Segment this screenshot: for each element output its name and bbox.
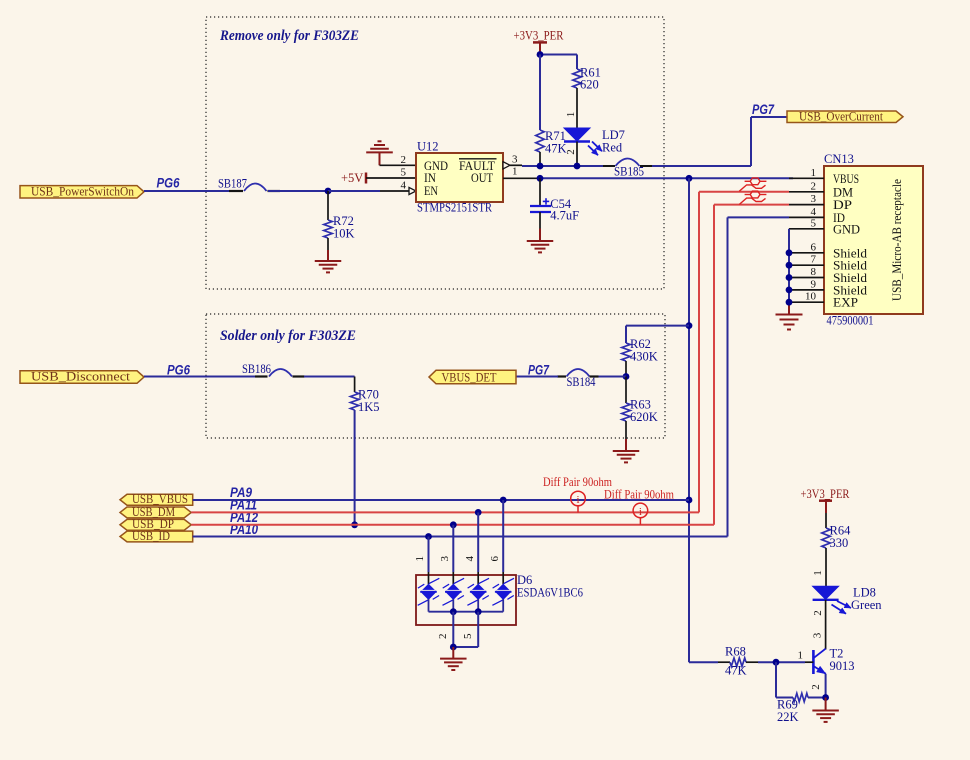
LED LD8	[813, 586, 883, 614]
svg-text:2: 2	[401, 154, 407, 166]
resistor R72	[324, 214, 355, 241]
TVS diode pair D6-a	[418, 572, 440, 605]
svg-text:4: 4	[811, 206, 817, 218]
port flag USB_DM	[120, 505, 191, 519]
svg-text:PG6: PG6	[157, 176, 180, 191]
wire node to R71/R61 split	[540, 54, 577, 56]
wire OUT line U12 to CN13	[503, 177, 793, 179]
connector CN13 USB Micro-AB body	[824, 152, 923, 328]
wire R62 to node	[625, 361, 627, 377]
svg-text:9: 9	[811, 278, 817, 290]
wire LD8 to T2 collector	[825, 600, 827, 650]
svg-text:330: 330	[830, 536, 849, 550]
wire flag to SB186	[144, 376, 256, 378]
svg-text:USB_OverCurrent: USB_OverCurrent	[799, 109, 884, 123]
junction dot PA11-D6	[475, 509, 482, 516]
resistor R70	[350, 388, 379, 415]
svg-text:SB184: SB184	[567, 375, 597, 389]
U12 pin 5 stub	[366, 167, 416, 179]
svg-text:STMPS2151STR: STMPS2151STR	[417, 201, 493, 215]
dotted region box: Remove only for F303ZE	[206, 17, 664, 289]
svg-text:620K: 620K	[630, 410, 658, 424]
svg-text:Remove only for F303ZE: Remove only for F303ZE	[219, 28, 359, 44]
wire LD7 to FAULT line	[576, 142, 578, 167]
ground below R72	[315, 261, 342, 272]
wire emitter node to ground	[825, 698, 827, 711]
net label PG7 (VBUS_DET)	[528, 362, 550, 377]
U12 pin 4 stub with input arrow	[380, 180, 416, 195]
wire D6 pin5 down	[453, 612, 478, 647]
power +3V3_PER (top)	[514, 29, 565, 52]
junction dot emitter node	[822, 694, 829, 701]
svg-text:2: 2	[565, 149, 577, 155]
junction dot D6 gnd	[450, 644, 457, 651]
svg-text:1: 1	[798, 650, 804, 662]
junction dot base node	[773, 659, 780, 666]
junction dot R72 tap	[325, 188, 332, 195]
svg-text:i: i	[576, 494, 579, 506]
junction dot C54 tap	[537, 175, 544, 182]
junction dot PA10-D6	[425, 533, 432, 540]
svg-text:10: 10	[805, 291, 817, 303]
text Diff Pair 90ohm (2)	[604, 486, 674, 501]
wire R63 to ground	[625, 421, 627, 451]
svg-text:SB185: SB185	[614, 165, 644, 179]
wire DM red	[699, 192, 789, 513]
junction dot D6 pin5 bus	[475, 608, 482, 615]
wire T2 emitter down	[825, 674, 827, 698]
svg-text:R68: R68	[725, 645, 746, 659]
wire PA9 bus	[193, 499, 689, 501]
TVS diode pair D6-d	[492, 572, 514, 605]
capacitor C54 polarized	[530, 178, 579, 222]
D6 pin labels top	[414, 555, 501, 561]
resistor R64	[822, 524, 851, 551]
wire PA10 bus	[193, 536, 728, 538]
svg-text:5: 5	[811, 217, 817, 229]
port flag USB_PowerSwitchOn	[20, 184, 144, 198]
ground below C54	[527, 241, 554, 252]
wire R69 to emitter node	[808, 697, 826, 699]
svg-text:47K: 47K	[545, 142, 567, 156]
svg-text:+3V3_PER: +3V3_PER	[801, 487, 851, 501]
resistor R68	[725, 645, 747, 678]
diff pair directive circle 2	[633, 503, 648, 525]
port flag USB_Disconnect	[20, 370, 144, 384]
wire 3V3 node down to R71	[539, 55, 541, 131]
svg-text:4.7uF: 4.7uF	[550, 209, 579, 223]
wire D6 to ground	[452, 647, 454, 659]
net label PA9	[230, 485, 252, 500]
solder bridge SB187	[218, 176, 280, 191]
net label PA11	[230, 498, 257, 513]
wire down to R61	[576, 55, 578, 70]
wire base from R68	[776, 661, 813, 663]
pin 2 label of LD7	[565, 149, 577, 155]
wire R71 to FAULT line	[539, 152, 541, 166]
net label PG6 (lower)	[167, 362, 190, 377]
svg-text:i: i	[639, 506, 642, 518]
wire PA11 bus	[191, 511, 699, 513]
svg-text:3: 3	[811, 193, 817, 205]
diff pair twist symbol on DM	[739, 178, 766, 191]
wire R68 to base node	[746, 661, 776, 663]
wire R64 to LD8	[825, 548, 827, 586]
svg-text:2: 2	[810, 684, 822, 690]
wire SB185 to PG7 corner	[652, 117, 787, 166]
LED LD7	[564, 128, 625, 155]
svg-text:10K: 10K	[333, 227, 355, 241]
svg-text:475900001: 475900001	[827, 314, 874, 328]
svg-text:VBUS_DET: VBUS_DET	[442, 370, 497, 384]
svg-text:4: 4	[401, 180, 407, 192]
resistor R62	[622, 337, 658, 364]
svg-text:5: 5	[401, 167, 407, 179]
TVS array D6 box	[416, 573, 583, 625]
svg-text:SB186: SB186	[242, 362, 271, 376]
svg-text:430K: 430K	[630, 350, 658, 364]
svg-text:USB_ID: USB_ID	[132, 529, 170, 543]
port flag VBUS_DET	[429, 370, 516, 384]
svg-text:USB_PowerSwitchOn: USB_PowerSwitchOn	[31, 184, 134, 198]
svg-text:3: 3	[512, 154, 518, 166]
junction dot VBUS_DET node	[623, 373, 630, 380]
diff pair twist symbol on DP	[739, 191, 766, 204]
pin 3 label of T2	[812, 632, 824, 638]
svg-text:2: 2	[437, 634, 449, 640]
wire flag to SB187	[144, 190, 242, 192]
transistor T2 9013	[798, 647, 855, 675]
TVS diode pair D6-b	[443, 572, 465, 605]
port flag USB_OverCurrent	[787, 109, 903, 123]
svg-text:Diff Pair 90ohm: Diff Pair 90ohm	[543, 474, 612, 489]
svg-text:1: 1	[565, 112, 577, 118]
junction dot PA12-D6	[450, 521, 457, 528]
svg-text:Solder only for F303ZE: Solder only for F303ZE	[220, 328, 356, 344]
svg-text:1: 1	[512, 166, 518, 178]
svg-text:Diff Pair 90ohm: Diff Pair 90ohm	[604, 486, 674, 501]
pin 1 label of LD7	[565, 112, 577, 118]
svg-text:GND: GND	[833, 221, 860, 236]
wire R72 node to EN pin	[328, 190, 380, 192]
wire D6 pin6 from PA9	[502, 500, 504, 572]
net label PA10	[230, 522, 258, 537]
svg-text:620: 620	[580, 78, 599, 92]
svg-text:1: 1	[811, 167, 817, 179]
wire R72 to ground	[327, 238, 329, 261]
svg-text:4: 4	[464, 555, 476, 561]
ground below CN13	[776, 315, 803, 330]
pin 2 label of T2	[810, 684, 822, 690]
junction dot VBUS vertical	[686, 175, 693, 182]
svg-text:3: 3	[439, 555, 451, 561]
svg-text:PG7: PG7	[528, 362, 550, 377]
svg-text:U12: U12	[417, 140, 439, 154]
svg-text:3: 3	[812, 632, 824, 638]
pin 2 label of LD8	[812, 610, 824, 616]
wire D6 pin4 from PA11	[477, 512, 479, 572]
svg-text:6: 6	[489, 555, 501, 561]
svg-text:8: 8	[811, 266, 817, 278]
wire R72 top lead	[327, 191, 329, 220]
wire SB184 to VBUS_DET flag	[516, 376, 558, 378]
resistor R63	[622, 377, 658, 425]
junction dot R62 top	[686, 322, 693, 329]
ground below D6	[440, 659, 467, 670]
junction dot at 3V3 node	[537, 51, 544, 58]
svg-text:USB_Micro-AB receptacle: USB_Micro-AB receptacle	[889, 179, 904, 301]
svg-text:SB187: SB187	[218, 176, 247, 190]
svg-text:22K: 22K	[777, 710, 799, 724]
svg-text:9013: 9013	[830, 659, 855, 673]
svg-text:OUT: OUT	[471, 170, 493, 185]
solder bridge SB186	[242, 362, 305, 377]
wire R62 top to VBUS	[626, 326, 689, 343]
net label PA12	[230, 510, 258, 525]
svg-text:+5V: +5V	[341, 171, 363, 185]
svg-text:Green: Green	[851, 598, 882, 612]
svg-text:+3V3_PER: +3V3_PER	[514, 29, 565, 43]
svg-text:USB_Disconnect: USB_Disconnect	[31, 370, 131, 384]
svg-text:7: 7	[811, 254, 817, 266]
junction dot PA9-VBUS	[686, 497, 693, 504]
svg-text:PG7: PG7	[752, 102, 775, 117]
svg-text:2: 2	[812, 610, 824, 616]
wire ID blue	[728, 217, 790, 536]
wire DP red	[714, 205, 789, 525]
port flag USB_DP	[120, 517, 191, 531]
diff pair directive circle 1	[571, 491, 586, 512]
net label PG6 (upper)	[157, 176, 180, 191]
port flag USB_VBUS	[120, 492, 193, 506]
junction dot R71-FAULT	[537, 163, 544, 170]
dotted region box: Solder only for F303ZE	[206, 314, 665, 438]
junction dot PA9-D6	[500, 497, 507, 504]
solder bridge SB184	[557, 369, 599, 389]
resistor R69	[777, 693, 808, 724]
wire FAULT line	[522, 165, 603, 167]
wire D6 internal bottom bus	[429, 599, 504, 612]
wire C54 to ground	[539, 212, 541, 241]
solder bridge SB185	[603, 159, 652, 179]
junction dot LD7-FAULT	[574, 163, 581, 170]
wire to R64	[825, 513, 827, 528]
svg-text:5: 5	[462, 633, 474, 639]
text Diff Pair 90ohm (1)	[543, 474, 612, 489]
D6 pin labels bottom	[437, 633, 474, 639]
wire PA12 bus	[191, 524, 714, 526]
power +3V3_PER (lower)	[801, 487, 851, 513]
svg-text:EXP: EXP	[833, 295, 858, 310]
CN13 pin stubs and pin numbers	[789, 167, 824, 303]
wire R70 to PA12	[354, 410, 356, 525]
U12 pin 3 stub with output arrow	[503, 154, 522, 169]
wire SB187 to R72 node	[268, 190, 328, 192]
IC U12 STMPS2151STR body	[416, 140, 503, 215]
TVS diode pair D6-c	[467, 572, 489, 605]
wire VBUS vertical x689	[688, 178, 690, 662]
junction dot D6 pin2 bus	[450, 608, 457, 615]
junction dot R70-PA12	[351, 521, 358, 528]
svg-text:EN: EN	[424, 183, 438, 198]
port flag USB_ID	[120, 529, 193, 543]
resistor R61	[573, 66, 601, 92]
svg-text:Red: Red	[602, 141, 623, 155]
wire SB186 to R70	[304, 377, 355, 393]
power +5V at U12 IN pin	[341, 171, 366, 185]
resistor R71	[536, 129, 567, 156]
svg-text:PG6: PG6	[167, 362, 190, 377]
wire shield bus vertical	[788, 229, 790, 315]
ground below T2	[812, 711, 839, 722]
svg-text:6: 6	[811, 241, 817, 253]
svg-text:1K5: 1K5	[358, 400, 380, 414]
wire D6 pin1 from PA10	[428, 537, 430, 573]
U12 pin 1 stub	[512, 166, 518, 178]
svg-text:1: 1	[414, 556, 426, 562]
ground below R63	[613, 451, 640, 462]
wire VBUS corner to R68	[689, 661, 730, 663]
ground (inverted) at U12 GND pin	[366, 141, 393, 165]
wire node to SB184	[598, 376, 626, 378]
svg-text:CN13: CN13	[824, 152, 854, 166]
svg-text:47K: 47K	[725, 664, 747, 678]
U12 pin 2 stub	[380, 154, 417, 166]
wire base node down to R69	[776, 662, 793, 697]
wire D6 pin2 down	[452, 612, 454, 647]
pin 1 label of LD8	[812, 570, 824, 576]
wire D6 pin3 from PA12	[452, 525, 454, 572]
junction dots shield pins	[786, 249, 793, 305]
svg-text:ESDA6V1BC6: ESDA6V1BC6	[517, 586, 583, 600]
svg-text:2: 2	[811, 180, 817, 192]
wire R61 to LD7	[576, 88, 578, 128]
svg-text:1: 1	[812, 570, 824, 576]
net label PG7 (upper)	[752, 102, 775, 117]
